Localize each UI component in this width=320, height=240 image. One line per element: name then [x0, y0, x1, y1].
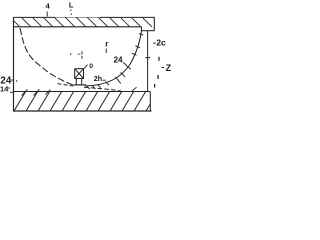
svg-text:Z: Z	[166, 63, 171, 73]
svg-text:14: 14	[0, 84, 9, 93]
svg-text:L: L	[69, 0, 74, 9]
svg-text:24: 24	[114, 56, 124, 65]
svg-text:r: r	[105, 39, 108, 48]
svg-text:2c: 2c	[156, 38, 166, 48]
svg-text:4: 4	[46, 1, 51, 10]
svg-text:2h: 2h	[94, 74, 102, 83]
svg-text:0: 0	[89, 63, 93, 70]
